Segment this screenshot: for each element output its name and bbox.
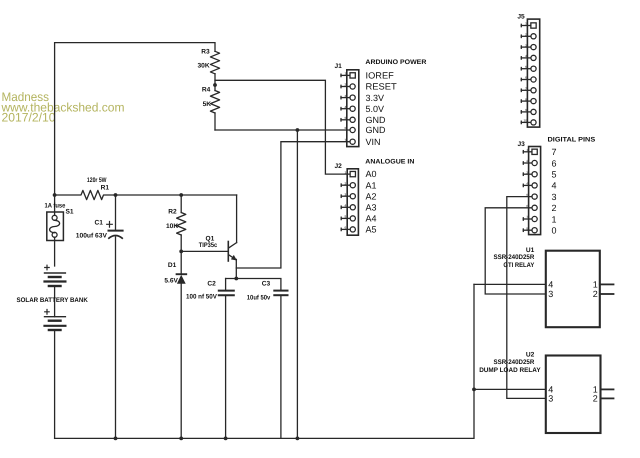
pin J3-8 digital 0 bbox=[523, 226, 556, 236]
svg-text:3.3V: 3.3V bbox=[366, 93, 385, 103]
node GND row / ground drop bbox=[296, 128, 300, 132]
relay U1 SSR GTI bbox=[494, 247, 614, 327]
svg-text:1: 1 bbox=[593, 280, 598, 290]
svg-text:1A fuse: 1A fuse bbox=[45, 202, 66, 209]
svg-text:J1: J1 bbox=[335, 63, 343, 70]
pin J1-6 GND connected bbox=[344, 125, 386, 135]
svg-text:6: 6 bbox=[344, 126, 346, 130]
svg-text:3: 3 bbox=[344, 94, 346, 98]
svg-text:10: 10 bbox=[523, 119, 527, 123]
svg-text:6: 6 bbox=[552, 158, 557, 168]
svg-text:A3: A3 bbox=[366, 202, 377, 212]
svg-text:3: 3 bbox=[548, 394, 553, 404]
svg-text:GTI RELAY: GTI RELAY bbox=[503, 262, 534, 269]
svg-text:0: 0 bbox=[552, 226, 557, 236]
svg-text:DIGITAL PINS: DIGITAL PINS bbox=[548, 136, 596, 143]
svg-text:J5: J5 bbox=[517, 13, 525, 20]
pin J5-6 bbox=[521, 76, 536, 82]
svg-text:7: 7 bbox=[344, 138, 346, 142]
svg-text:SOLAR BATTERY BANK: SOLAR BATTERY BANK bbox=[17, 297, 89, 304]
svg-text:TIP35c: TIP35c bbox=[199, 242, 218, 249]
svg-text:C2: C2 bbox=[207, 281, 216, 288]
pin J5-3 bbox=[521, 43, 536, 49]
pin J1-2 RESET bbox=[341, 82, 397, 92]
svg-text:D1: D1 bbox=[168, 262, 177, 269]
svg-text:7: 7 bbox=[525, 87, 527, 91]
svg-text:R3: R3 bbox=[201, 49, 210, 56]
svg-text:10uf 50v: 10uf 50v bbox=[247, 295, 271, 302]
wire emitter junction row to C2 and C3 bbox=[226, 279, 281, 291]
svg-text:U1: U1 bbox=[526, 247, 535, 254]
node C1 bottom rail bbox=[114, 437, 118, 441]
svg-text:4: 4 bbox=[526, 182, 528, 186]
svg-text:2: 2 bbox=[552, 203, 557, 213]
svg-text:SSR-240D25R: SSR-240D25R bbox=[494, 359, 535, 366]
svg-text:GND: GND bbox=[366, 115, 387, 125]
svg-text:GND: GND bbox=[366, 125, 387, 135]
node emitter / C2 / C3 junction bbox=[234, 277, 238, 281]
wire R3 to R4 junction bbox=[214, 74, 216, 91]
svg-text:100 nf 50V: 100 nf 50V bbox=[186, 293, 217, 300]
battery B1 (upper) bbox=[45, 265, 66, 317]
svg-text:1: 1 bbox=[552, 214, 557, 224]
wire R4 bottom to GND row bbox=[214, 113, 216, 130]
pin J3-4 digital 4 bbox=[523, 181, 556, 191]
svg-text:3: 3 bbox=[526, 170, 528, 174]
wire A0 branch from R3/R4 junction bbox=[215, 80, 350, 174]
pin J3-5 digital 3 connected bbox=[526, 192, 556, 202]
svg-text:SSR-240D25R: SSR-240D25R bbox=[494, 254, 535, 261]
svg-text:A5: A5 bbox=[366, 225, 377, 235]
svg-text:6: 6 bbox=[344, 226, 346, 230]
svg-text:5.6V: 5.6V bbox=[164, 278, 178, 285]
wire U2 pin 4 tap bbox=[474, 388, 546, 390]
svg-text:5: 5 bbox=[552, 170, 557, 180]
svg-text:DUMP LOAD RELAY: DUMP LOAD RELAY bbox=[479, 367, 541, 374]
pin J5-8 bbox=[521, 97, 536, 103]
svg-text:2: 2 bbox=[344, 83, 346, 87]
node R2 bottom / base / D1 bbox=[179, 250, 183, 254]
svg-text:S1: S1 bbox=[66, 209, 74, 216]
node R2 top bbox=[179, 193, 183, 197]
pin J5-2 bbox=[521, 33, 536, 39]
connector J3 DIGITAL PINS bbox=[518, 136, 596, 234]
svg-text:7: 7 bbox=[526, 215, 528, 219]
svg-text:A4: A4 bbox=[366, 214, 377, 224]
svg-text:30K: 30K bbox=[198, 62, 210, 69]
pin J3-7 digital 1 bbox=[523, 214, 556, 224]
wire U1 pin 4 to ground rail bbox=[474, 283, 546, 285]
node U2 pin4 junction bbox=[472, 388, 476, 392]
svg-text:A1: A1 bbox=[366, 180, 377, 190]
svg-text:1: 1 bbox=[525, 22, 527, 26]
svg-text:2017/2/10: 2017/2/10 bbox=[2, 110, 56, 124]
resistor R1 bbox=[55, 177, 116, 200]
svg-text:4: 4 bbox=[344, 204, 346, 208]
svg-text:4: 4 bbox=[548, 280, 553, 290]
svg-text:8: 8 bbox=[526, 226, 528, 230]
transistor Q1 TIP35c bbox=[199, 195, 237, 279]
svg-text:7: 7 bbox=[552, 147, 557, 157]
pin J3-1 digital 7 bbox=[523, 147, 556, 157]
svg-text:IOREF: IOREF bbox=[366, 71, 395, 81]
svg-text:2: 2 bbox=[344, 181, 346, 185]
svg-text:3: 3 bbox=[525, 43, 527, 47]
pin J3-3 digital 5 bbox=[523, 170, 556, 180]
svg-text:5.0V: 5.0V bbox=[366, 104, 385, 114]
svg-text:2: 2 bbox=[593, 289, 598, 299]
label SOLAR BATTERY BANK bbox=[17, 297, 89, 304]
pin J1-1 IOREF bbox=[341, 71, 394, 81]
svg-text:RESET: RESET bbox=[366, 82, 398, 92]
svg-text:5: 5 bbox=[525, 65, 527, 69]
wire R1 node to R2 top and collector bbox=[116, 194, 237, 196]
node D1 bottom rail bbox=[179, 437, 183, 441]
node fuse / R1 left bbox=[53, 193, 57, 197]
svg-text:120r 5W: 120r 5W bbox=[87, 177, 107, 184]
diode D1 zener 5.6V bbox=[164, 251, 186, 438]
relay U2 SSR DUMP LOAD bbox=[479, 352, 613, 433]
svg-text:U2: U2 bbox=[526, 352, 535, 359]
svg-text:J3: J3 bbox=[518, 141, 526, 148]
svg-text:2: 2 bbox=[526, 159, 528, 163]
pin J3-6 digital 2 connected bbox=[526, 203, 556, 213]
svg-text:4: 4 bbox=[552, 181, 557, 191]
pin J1-4 5.0V bbox=[341, 104, 384, 114]
pin J2-2 A1 bbox=[341, 180, 376, 190]
svg-text:R2: R2 bbox=[168, 208, 177, 215]
pin J2-4 A3 bbox=[341, 202, 376, 212]
svg-text:VIN: VIN bbox=[366, 137, 381, 147]
node R1 right / C1 top bbox=[114, 193, 118, 197]
pin J5-10 bbox=[521, 119, 536, 125]
capacitor C3 bbox=[247, 281, 288, 439]
svg-text:C1: C1 bbox=[95, 220, 104, 227]
pin J2-1 A0 connected bbox=[344, 169, 376, 179]
node C2 bottom rail bbox=[224, 437, 228, 441]
pin J5-1 bbox=[521, 22, 536, 28]
svg-text:2: 2 bbox=[593, 394, 598, 404]
svg-text:3: 3 bbox=[344, 192, 346, 196]
capacitor C1 bbox=[76, 195, 123, 438]
pin J1-5 GND bbox=[341, 115, 386, 125]
resistor R4 bbox=[202, 87, 220, 113]
wire bottom ground rail bbox=[55, 284, 474, 438]
pin J1-7 VIN connected bbox=[344, 137, 380, 147]
svg-text:1: 1 bbox=[526, 148, 528, 152]
svg-text:C3: C3 bbox=[262, 281, 271, 288]
pin J2-6 A5 bbox=[341, 225, 376, 235]
svg-text:6: 6 bbox=[525, 76, 527, 80]
svg-text:ARDUINO POWER: ARDUINO POWER bbox=[365, 59, 426, 66]
svg-text:8: 8 bbox=[525, 97, 527, 101]
svg-text:1: 1 bbox=[344, 170, 346, 174]
connector J5 bbox=[517, 13, 539, 127]
svg-text:R1: R1 bbox=[101, 185, 110, 192]
wire J3 digital 3 to U2 pin 3 bbox=[507, 197, 546, 399]
pin J1-3 3.3V bbox=[341, 93, 384, 103]
svg-text:4: 4 bbox=[525, 54, 527, 58]
wire GND row to J1 GND pin bbox=[215, 129, 350, 131]
pin J2-5 A4 bbox=[341, 214, 376, 224]
logo text www.thebackshed.com bbox=[1, 90, 125, 124]
pin J5-5 bbox=[521, 65, 536, 71]
svg-text:9: 9 bbox=[525, 108, 527, 112]
node ground drop rail bbox=[296, 437, 300, 441]
resistor R3 bbox=[198, 49, 220, 74]
battery B2 (lower) bbox=[45, 310, 66, 439]
capacitor C2 bbox=[186, 279, 234, 439]
svg-text:A0: A0 bbox=[366, 169, 377, 179]
svg-text:3: 3 bbox=[548, 289, 553, 299]
svg-text:5K: 5K bbox=[203, 101, 212, 108]
svg-text:2: 2 bbox=[525, 33, 527, 37]
svg-text:J2: J2 bbox=[335, 163, 343, 170]
svg-text:3: 3 bbox=[552, 192, 557, 202]
svg-text:10K: 10K bbox=[166, 223, 178, 230]
svg-text:ANALOGUE IN: ANALOGUE IN bbox=[365, 158, 414, 165]
svg-text:5: 5 bbox=[344, 116, 346, 120]
pin J2-3 A2 bbox=[341, 191, 376, 201]
pin J5-9 bbox=[521, 108, 536, 114]
pin J5-4 bbox=[521, 54, 536, 60]
wire J3 digital 2 to U1 pin 3 bbox=[485, 208, 546, 294]
wire top rail from battery to R3 bbox=[55, 43, 215, 195]
wire base of Q1 bbox=[181, 250, 228, 252]
svg-text:5: 5 bbox=[344, 215, 346, 219]
connector J2 ANALOGUE IN bbox=[335, 158, 415, 235]
pin J5-7 bbox=[521, 87, 536, 93]
resistor R2 bbox=[166, 195, 186, 251]
wire VIN row bbox=[236, 142, 349, 268]
svg-text:1: 1 bbox=[344, 72, 346, 76]
svg-text:4: 4 bbox=[344, 105, 346, 109]
node R3/R4 junction bbox=[213, 83, 217, 87]
pin J3-2 digital 6 bbox=[523, 158, 556, 168]
connector J1 ARDUINO POWER bbox=[335, 59, 427, 147]
fuse S1 bbox=[45, 195, 74, 266]
svg-text:100uf 63V: 100uf 63V bbox=[76, 233, 108, 240]
svg-text:A2: A2 bbox=[366, 191, 377, 201]
wire ground drop to bottom rail bbox=[296, 130, 298, 438]
svg-text:R4: R4 bbox=[202, 87, 211, 94]
